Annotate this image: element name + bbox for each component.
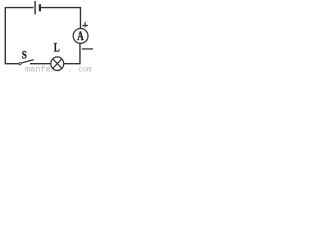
switch S pivot circle xyxy=(19,63,21,65)
svg-text:S: S xyxy=(22,50,27,62)
switch S blade xyxy=(22,60,34,63)
minus terminal wire to right edge xyxy=(82,48,93,50)
battery B1 long plate xyxy=(34,1,36,14)
wire ammeter bottom to bottom-right corner to lamp xyxy=(64,44,80,64)
svg-text:A: A xyxy=(77,29,83,43)
wire top-right + right side down to ammeter xyxy=(41,8,80,28)
svg-text:.: . xyxy=(67,66,72,73)
ammeter U1 circle xyxy=(73,29,88,44)
lamp L circle xyxy=(51,57,64,71)
battery B1 short plate xyxy=(39,4,41,11)
svg-text:com: com xyxy=(78,66,91,73)
plus terminal mark xyxy=(82,22,88,28)
wire top-left + left side + bottom-left xyxy=(5,8,33,64)
svg-text:L: L xyxy=(54,41,60,55)
lamp X cross xyxy=(53,59,62,69)
watermark text manfen5 . com xyxy=(25,65,92,75)
wire switch to lamp xyxy=(30,63,51,65)
